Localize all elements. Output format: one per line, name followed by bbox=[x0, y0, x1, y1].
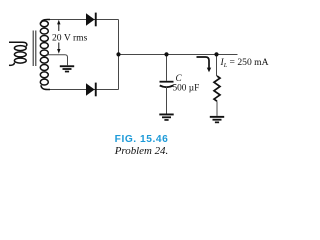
wire: secondary bottom terminal to right bus (through D2) bbox=[48, 89, 119, 91]
capacitor C bottom plate (curved) bbox=[160, 86, 174, 88]
measurement arrow for 20 V rms (double headed) bbox=[57, 20, 60, 54]
wire: load resistor to ground bbox=[216, 101, 218, 116]
wire: right vertical bus joining D1 and D2 outputs bbox=[118, 20, 120, 90]
node: load junction bbox=[214, 52, 218, 56]
wire: load branch from output rail bbox=[216, 55, 218, 77]
svg-text:20 V rms: 20 V rms bbox=[52, 32, 88, 43]
node: capacitor junction bbox=[164, 52, 168, 56]
wire: capacitor to ground bbox=[166, 87, 168, 114]
svg-text:500 µF: 500 µF bbox=[173, 83, 200, 93]
node: rectifier output junction on bus bbox=[116, 52, 120, 56]
wire: secondary top terminal to right bus (through D1) bbox=[48, 19, 119, 21]
diode D1 (top) bbox=[86, 13, 97, 27]
svg-text:C: C bbox=[176, 73, 183, 83]
wire: rectifier output rail to load side bbox=[118, 54, 238, 56]
caption Problem 24. bbox=[0, 145, 283, 157]
caption FIG. 15.46 bbox=[0, 134, 283, 145]
wire: capacitor branch from output rail bbox=[166, 55, 168, 81]
resistor RL (load) bbox=[214, 76, 220, 101]
ground (capacitor) bbox=[159, 114, 173, 121]
ground (load) bbox=[210, 116, 224, 123]
transformer T1 secondary winding (center-tapped) bbox=[40, 20, 50, 90]
wire: secondary center tap to ground bbox=[46, 55, 68, 66]
transformer T1 primary winding bbox=[9, 42, 27, 65]
diode D2 (bottom) bbox=[86, 83, 97, 97]
svg-text:IL = 250 mA: IL = 250 mA bbox=[220, 57, 269, 69]
ground (center tap) bbox=[60, 65, 74, 72]
capacitor C top plate bbox=[160, 81, 174, 83]
transformer T1 core bbox=[33, 31, 36, 67]
current arrow IL into load bbox=[197, 57, 212, 72]
